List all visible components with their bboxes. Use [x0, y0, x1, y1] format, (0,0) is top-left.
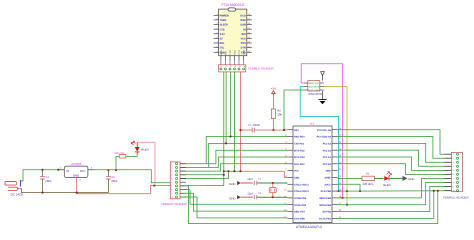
LED RLED: [126, 141, 149, 156]
junction: [338, 190, 340, 192]
junction: [230, 136, 232, 138]
svg-text:PWREN: PWREN: [220, 14, 230, 17]
svg-text:GND: GND: [73, 173, 79, 177]
svg-text:CTS: CTS: [220, 28, 225, 31]
svg-text:OUT: OUT: [80, 169, 86, 173]
wire 5V rail to header: [203, 185, 224, 187]
junction: [76, 192, 78, 194]
svg-text:PC0 A0: PC0 A0: [323, 163, 332, 166]
svg-text:IN: IN: [66, 169, 69, 173]
wire VIN: [21, 170, 65, 181]
wire 5V line: [224, 170, 241, 172]
svg-text:10: 10: [284, 189, 287, 192]
wire A2 to right header: [338, 150, 451, 166]
wire v4 from J2: [233, 72, 235, 171]
svg-text:CTS: CTS: [238, 50, 241, 55]
wire A4 to right header: [338, 137, 451, 159]
svg-text:8: 8: [217, 45, 218, 48]
svg-text:AREF: AREF: [324, 177, 331, 180]
wire P2 D3 to U1 pin5: [181, 157, 288, 167]
svg-text:INT0-PD2: INT0-PD2: [294, 149, 305, 152]
junction: [283, 129, 285, 131]
junction: [153, 185, 155, 187]
svg-text:14: 14: [284, 216, 287, 219]
svg-text:GND: GND: [408, 177, 414, 181]
junction: [433, 190, 435, 192]
svg-text:INT1-PD3: INT1-PD3: [294, 156, 305, 159]
capacitor C5 10uF: [106, 170, 118, 192]
svg-text:TXD-PD1: TXD-PD1: [294, 142, 305, 145]
wire P5 GND to header: [181, 171, 229, 178]
junction: [359, 190, 361, 192]
wire to U1 pin8: [241, 171, 288, 177]
capacitor C4 10uF: [40, 170, 52, 193]
svg-text:PC1 A1: PC1 A1: [323, 156, 332, 159]
svg-text:10uF: 10uF: [111, 179, 118, 183]
junction: [346, 190, 348, 192]
female header J2 (6-pin horizontal): [219, 61, 275, 72]
wire MISO net (teal): [300, 87, 338, 192]
svg-text:1: 1: [60, 167, 62, 170]
svg-text:12: 12: [284, 202, 287, 205]
svg-text:13: 13: [284, 209, 287, 212]
svg-text:PC3 A3: PC3 A3: [323, 142, 332, 145]
ground below ICSP: [319, 91, 327, 104]
svg-text:VCC: VCC: [294, 170, 299, 173]
wire D11 to right header: [338, 182, 451, 204]
svg-text:12: 12: [248, 41, 250, 44]
wire A3 to right header: [338, 143, 451, 162]
svg-text:3: 3: [217, 22, 218, 25]
wire P3 D4 to U1 pin6: [181, 164, 288, 171]
svg-text:ICSP 6PIN: ICSP 6PIN: [308, 92, 321, 96]
VCC flag above ICSP: [321, 72, 325, 81]
svg-text:FEMALE HEADER: FEMALE HEADER: [161, 202, 187, 206]
female header J5 (10-pin right): [443, 153, 469, 200]
junction: [42, 169, 44, 171]
capacitor C2 22pF: [247, 192, 261, 200]
female header J3 (10-pin left): [161, 162, 187, 206]
wire A5 to right header: [338, 130, 451, 155]
svg-text:11: 11: [248, 45, 250, 48]
svg-text:3: 3: [91, 167, 93, 170]
svg-text:18: 18: [248, 13, 250, 16]
svg-text:DTR: DTR: [220, 50, 223, 55]
svg-text:15: 15: [248, 27, 250, 30]
wire D6 to U1 pin12: [181, 190, 288, 205]
svg-text:OC0A-PD6: OC0A-PD6: [294, 204, 307, 207]
svg-text:100nF: 100nF: [252, 124, 260, 127]
svg-text:AVCC: AVCC: [324, 183, 331, 186]
svg-text:5V: 5V: [220, 38, 223, 41]
FTDI module U2: [214, 3, 252, 61]
svg-text:VCC: VCC: [315, 82, 320, 85]
resistor R2 10k: [271, 95, 282, 130]
resistor R1 220ohm: [362, 171, 375, 186]
junction: [273, 129, 275, 131]
wire RESET net: [241, 129, 253, 131]
svg-text:GND: GND: [294, 177, 300, 180]
svg-text:2: 2: [80, 179, 82, 182]
junction: [234, 170, 236, 172]
junction: [42, 192, 44, 194]
wire XTAL2 gnd side: [241, 196, 253, 198]
wire: [389, 177, 402, 179]
svg-text:14: 14: [248, 32, 250, 35]
svg-text:RSD: RSD: [241, 19, 246, 22]
LED BLED: [383, 172, 391, 187]
junction: [57, 169, 59, 171]
wire TXD to U1 pin3: [209, 143, 288, 167]
ground flag GND1: [229, 181, 240, 186]
svg-text:SS-PB2: SS-PB2: [322, 211, 331, 214]
wire LED to 5V rail: [137, 142, 155, 185]
resistor R3 330ohm: [114, 152, 125, 170]
svg-text:9: 9: [217, 50, 218, 53]
wire MISO to rail: [338, 184, 361, 191]
svg-text:LM7805: LM7805: [71, 162, 82, 166]
svg-text:7: 7: [285, 168, 287, 171]
junction: [108, 169, 110, 171]
svg-text:VCC: VCC: [241, 38, 246, 41]
svg-text:PC2 A2: PC2 A2: [323, 149, 332, 152]
svg-text:C3: C3: [248, 124, 252, 127]
svg-text:13: 13: [248, 36, 250, 39]
svg-text:17: 17: [248, 18, 250, 21]
svg-text:6: 6: [217, 36, 218, 39]
svg-text:TXEN: TXEN: [220, 19, 227, 22]
junction: [437, 190, 439, 192]
svg-text:GND: GND: [229, 182, 235, 186]
svg-text:+5V: +5V: [271, 87, 276, 91]
IC U1 ATMEGA328: [284, 122, 342, 229]
svg-text:22pF: 22pF: [247, 192, 253, 195]
svg-text:RI: RI: [243, 28, 246, 31]
svg-text:U1: U1: [310, 122, 314, 126]
junction: [272, 196, 274, 198]
svg-text:RXD-PD0: RXD-PD0: [294, 136, 305, 139]
svg-text:XTAL1-OSC1: XTAL1-OSC1: [294, 183, 309, 186]
svg-text:1: 1: [217, 13, 218, 16]
svg-text:21: 21: [338, 175, 341, 178]
svg-text:22pF: 22pF: [247, 178, 253, 181]
svg-text:PC4 SDA-A4: PC4 SDA-A4: [317, 136, 332, 139]
svg-text:3.3V: 3.3V: [220, 33, 225, 36]
svg-text:C2: C2: [258, 192, 262, 195]
svg-text:RXL: RXL: [220, 42, 225, 45]
wire XTAL1 gnd side: [241, 182, 253, 184]
wire ground bus: [18, 189, 108, 193]
ICSP header J4: [304, 81, 324, 97]
crystal Y1: [269, 183, 276, 197]
svg-text:RST: RST: [294, 129, 299, 132]
+5V power flag: [271, 87, 276, 96]
svg-text:R1: R1: [366, 171, 370, 175]
wire XTAL1: [257, 182, 288, 184]
svg-text:XCK-PD4: XCK-PD4: [294, 163, 305, 166]
svg-text:BLED: BLED: [383, 183, 390, 187]
svg-text:MOSI-PB3: MOSI-PB3: [319, 204, 331, 207]
svg-text:2: 2: [217, 18, 218, 21]
svg-text:RLED: RLED: [141, 147, 148, 151]
junction: [223, 174, 225, 176]
svg-text:FEMALE HEADER: FEMALE HEADER: [248, 67, 274, 71]
ground flag GND2: [229, 195, 240, 200]
wire ground return: [77, 181, 203, 194]
wire A1 to right header: [338, 157, 451, 170]
wire P1 D2 to U1 pin4: [181, 150, 288, 164]
wire under-chip rail: [189, 186, 438, 224]
wire 5V from regulator: [88, 169, 94, 171]
svg-text:10: 10: [248, 50, 250, 53]
wire XTAL2: [257, 196, 288, 198]
svg-text:GND: GND: [326, 170, 332, 173]
junction: [225, 143, 227, 145]
ground flag GND3: [403, 176, 415, 181]
wire D13 to right header: [338, 190, 451, 192]
svg-text:DC JACK: DC JACK: [11, 193, 24, 197]
svg-text:MOSI: MOSI: [314, 86, 320, 89]
svg-text:XTAL2-OSC2: XTAL2-OSC2: [294, 190, 309, 193]
svg-text:16: 16: [248, 22, 250, 25]
svg-text:TXO: TXO: [229, 50, 232, 55]
svg-text:22: 22: [338, 168, 341, 171]
wire SCK/led: [338, 177, 363, 179]
svg-text:10uF: 10uF: [45, 179, 52, 183]
svg-text:DSR: DSR: [241, 24, 246, 27]
junction: [272, 182, 274, 184]
wire v1 5V from J2: [223, 72, 225, 186]
capacitor C1 22pF: [247, 178, 261, 186]
junction: [346, 204, 348, 206]
wire v2 TX from J2: [225, 72, 227, 143]
svg-text:ICP1-PB0: ICP1-PB0: [294, 218, 305, 221]
svg-text:C1: C1: [258, 178, 262, 181]
svg-text:DCD: DCD: [240, 14, 246, 17]
wire v5 DTR/GND from J2: [240, 72, 242, 171]
wire RXD to U1 pin2: [206, 137, 287, 164]
wire D12 to right header: [338, 178, 451, 198]
junction: [228, 170, 230, 172]
wire stub: [181, 185, 189, 187]
wire MOSI net (magenta): [301, 64, 342, 198]
svg-text:7: 7: [217, 41, 218, 44]
connector J1 DC jack: [5, 180, 23, 197]
svg-text:RXI: RXI: [224, 51, 227, 55]
wire D9: [338, 191, 434, 219]
wire: [375, 177, 384, 179]
svg-text:5: 5: [217, 32, 218, 35]
svg-text:GND: GND: [229, 196, 235, 200]
svg-text:FTDI MODULE: FTDI MODULE: [222, 3, 246, 7]
junction: [115, 169, 117, 171]
wire v3 RX from J2: [230, 72, 232, 137]
wire SCK net (olive): [324, 87, 347, 205]
svg-text:220 ohm: 220 ohm: [363, 182, 375, 186]
junction: [240, 129, 242, 131]
wire D8 to U1 pin14: [181, 197, 288, 218]
svg-text:OC0B-PD5: OC0B-PD5: [294, 197, 307, 200]
svg-text:SLEEP: SLEEP: [220, 24, 229, 27]
wire A0 to right header: [338, 164, 451, 175]
junction: [223, 170, 225, 172]
svg-text:AIN1-PD7: AIN1-PD7: [294, 211, 306, 214]
svg-text:PC5 SCL-A5: PC5 SCL-A5: [317, 129, 332, 132]
svg-text:FEMALE HEADER: FEMALE HEADER: [443, 196, 469, 200]
wire P4 5V to header: [181, 174, 224, 176]
regulator U3 LM7805: [58, 162, 94, 182]
junction: [342, 197, 344, 199]
junction: [240, 170, 242, 172]
wire D10 to right header: [338, 186, 451, 211]
svg-text:VCC: VCC: [233, 50, 236, 55]
wire RESET from ICSP: [284, 90, 304, 130]
svg-text:RTS: RTS: [241, 42, 246, 45]
svg-text:RXI: RXI: [242, 33, 246, 36]
svg-text:GND: GND: [243, 49, 246, 54]
svg-text:10k: 10k: [277, 113, 282, 117]
svg-text:DTR: DTR: [241, 47, 246, 50]
svg-text:4: 4: [217, 27, 218, 30]
svg-text:OC1A-PB1: OC1A-PB1: [319, 218, 332, 221]
wire D7 to U1 pin13: [181, 193, 288, 211]
svg-text:TXL: TXL: [220, 47, 225, 50]
svg-text:ATMEGA328(PU): ATMEGA328(PU): [296, 225, 322, 229]
svg-text:SCK-PB5: SCK-PB5: [321, 190, 332, 193]
capacitor C3: [248, 124, 260, 133]
svg-text:MISO-PB4: MISO-PB4: [319, 197, 331, 200]
